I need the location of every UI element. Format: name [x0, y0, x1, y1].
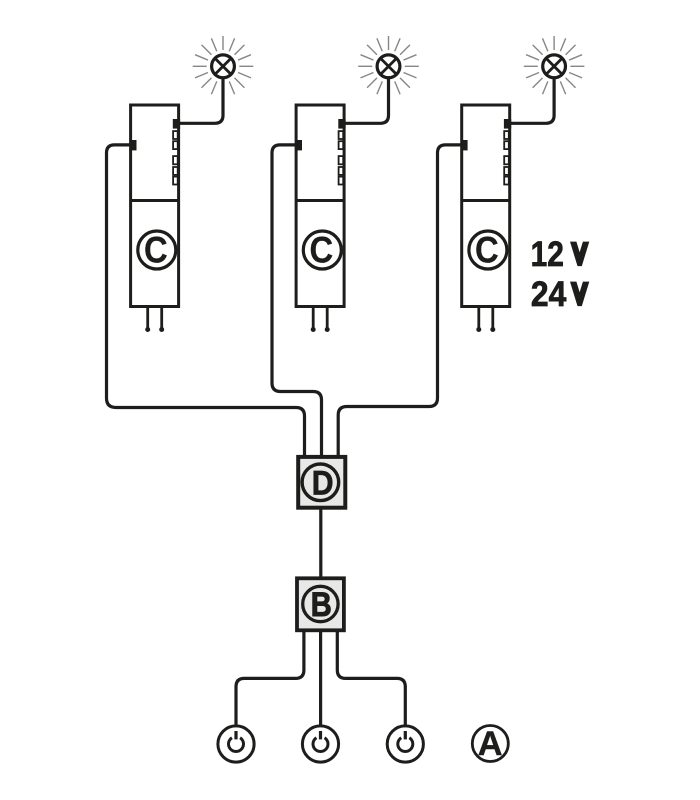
svg-text:12: 12 — [531, 235, 564, 274]
svg-text:B: B — [311, 586, 332, 624]
svg-text:A: A — [478, 725, 503, 763]
svg-text:D: D — [312, 464, 334, 502]
svg-text:24: 24 — [531, 275, 567, 314]
